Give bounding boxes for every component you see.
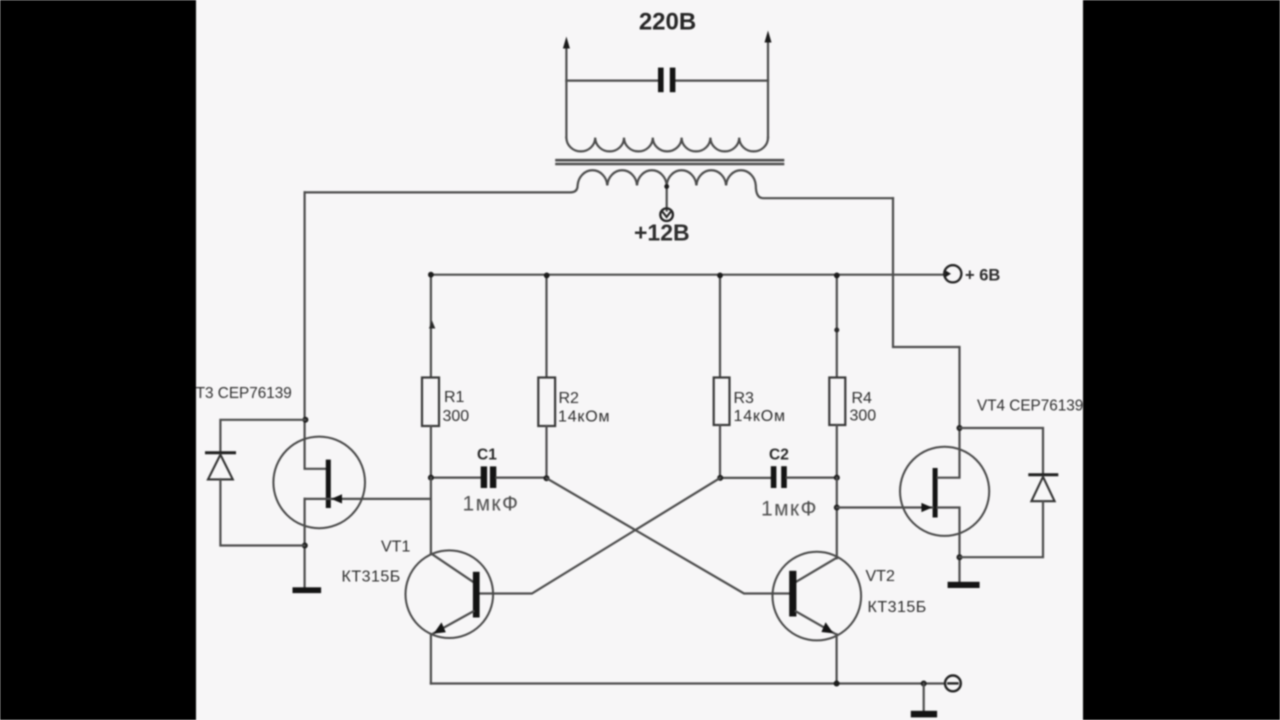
node mark left bbox=[429, 321, 435, 329]
diode VD4 bbox=[1030, 473, 1057, 476]
wire VT4 gate bbox=[837, 506, 933, 508]
resistor R1 bbox=[422, 378, 439, 427]
diode VD3 wire top bbox=[220, 420, 305, 452]
node C2 right bbox=[834, 475, 840, 481]
channel bar VT4 bbox=[933, 468, 938, 518]
transistor VT1 bbox=[406, 550, 494, 638]
svg-text:R1: R1 bbox=[444, 389, 465, 406]
base bar VT1 bbox=[473, 572, 480, 618]
wire bottom bus bbox=[431, 682, 945, 684]
svg-text:VT1: VT1 bbox=[381, 539, 410, 556]
transformer primary winding bbox=[566, 138, 768, 152]
resistor R3 bbox=[714, 378, 730, 426]
wire R3 bottom bbox=[719, 425, 721, 478]
wire capacitor row left bbox=[566, 79, 658, 81]
node bus R3 bbox=[717, 273, 723, 279]
node VT2 emitter bus bbox=[834, 681, 840, 687]
base bar VT2 bbox=[789, 571, 796, 617]
node bus R1 bbox=[428, 272, 434, 278]
svg-text:1мкФ: 1мкФ bbox=[463, 493, 520, 516]
svg-text:+ 6В: + 6В bbox=[965, 267, 1000, 285]
wire R3 top bbox=[719, 275, 721, 378]
wire VT3 source bbox=[304, 499, 306, 587]
wire R4 bottom bbox=[836, 425, 838, 478]
wire C1 left bbox=[431, 477, 481, 479]
svg-text:14кОм: 14кОм bbox=[558, 409, 610, 426]
node VT3 source diode bbox=[302, 543, 308, 549]
wire VT3 gate from node bbox=[305, 498, 431, 500]
svg-text:R2: R2 bbox=[559, 390, 580, 407]
wire top supply bus bbox=[431, 274, 944, 276]
svg-text:КТ315Б: КТ315Б bbox=[868, 599, 927, 616]
pillarbox bar right bbox=[1083, 0, 1280, 720]
svg-text:+12В: +12В bbox=[634, 220, 690, 246]
pillarbox bar left bbox=[0, 0, 196, 720]
node VT4 drain diode bbox=[957, 425, 963, 431]
wire R1 top bbox=[430, 275, 432, 378]
ground bottom bbox=[911, 711, 937, 718]
wire transformer right to VT4 drain bbox=[893, 198, 960, 428]
resistor R4 bbox=[829, 378, 845, 426]
svg-text:14кОм: 14кОм bbox=[734, 408, 786, 425]
node ground tee bbox=[921, 681, 927, 687]
transformer secondary winding bbox=[305, 170, 893, 198]
wire C2 left bbox=[720, 477, 771, 479]
node C1 right bbox=[544, 475, 550, 481]
transformer T1 output right lead bbox=[767, 38, 769, 138]
node C2 left bbox=[717, 475, 723, 481]
diode VD3 wire bottom bbox=[220, 479, 304, 545]
wire VT2 emitter bbox=[796, 611, 836, 634]
mosfet VT3 bbox=[273, 437, 365, 529]
svg-text:VT4 CEP76139: VT4 CEP76139 bbox=[977, 398, 1083, 415]
wire R1 bottom bbox=[430, 426, 432, 478]
diode VD4 wire bottom bbox=[960, 501, 1044, 557]
wire VT4 drain bbox=[938, 428, 960, 478]
diode VD4 wire top bbox=[960, 428, 1044, 473]
svg-text:300: 300 bbox=[850, 408, 877, 425]
channel bar VT3 bbox=[326, 460, 331, 508]
wire R4 top bbox=[836, 275, 838, 378]
terminal minus bbox=[945, 676, 961, 692]
transformer core bbox=[557, 159, 784, 162]
wire cross coupling R2 to VT2 base bbox=[547, 478, 790, 593]
node C1 left bbox=[428, 475, 434, 481]
wire R2 top bbox=[545, 275, 547, 378]
svg-text:КТ315Б: КТ315Б bbox=[342, 569, 401, 586]
node VT3 drain diode bbox=[302, 417, 308, 423]
wire C1 right bbox=[496, 477, 546, 479]
wire VT4 source bbox=[938, 508, 960, 582]
node center tap bbox=[664, 184, 669, 189]
capacitor C2 bbox=[771, 466, 787, 488]
ground VT3 bbox=[293, 587, 322, 593]
resistor R2 bbox=[538, 378, 555, 427]
svg-text:R3: R3 bbox=[734, 390, 755, 407]
ground VT4 bbox=[948, 582, 980, 588]
wire transformer left down to VT3 bbox=[305, 192, 326, 468]
svg-text:220В: 220В bbox=[639, 9, 696, 36]
mosfet VT4 bbox=[900, 447, 989, 536]
transformer T1 output left lead bbox=[565, 44, 567, 138]
arrow VT4 gate bbox=[921, 503, 932, 512]
wire cross coupling R3 to VT1 base bbox=[480, 478, 721, 594]
svg-text:1мкФ: 1мкФ bbox=[761, 498, 818, 521]
capacitor C1 bbox=[481, 466, 497, 488]
wire C2 right bbox=[787, 477, 837, 479]
arrow VT3 gate bbox=[331, 494, 342, 503]
node bus R2 bbox=[544, 273, 550, 279]
wire R2 bottom bbox=[545, 426, 547, 478]
terminal +6V bbox=[944, 265, 961, 282]
terminal +12V bbox=[660, 208, 673, 221]
wire center tap bbox=[666, 186, 668, 211]
wire VT2 collector bbox=[836, 478, 838, 559]
svg-text:300: 300 bbox=[443, 408, 470, 425]
wire capacitor row right bbox=[675, 79, 768, 81]
transistor VT2 bbox=[773, 552, 862, 641]
node VT4 source diode bbox=[957, 554, 963, 560]
svg-text:VT3 CEP76139: VT3 CEP76139 bbox=[186, 385, 292, 402]
wire ground stem bbox=[923, 684, 925, 711]
svg-text:C1: C1 bbox=[477, 447, 497, 464]
wire VT1 emitter bbox=[431, 611, 473, 634]
node mark right bbox=[834, 328, 839, 333]
svg-text:C2: C2 bbox=[769, 447, 789, 464]
node VT4 gate tee bbox=[834, 505, 840, 511]
svg-text:VT2: VT2 bbox=[866, 568, 895, 585]
arrow output right bbox=[765, 31, 772, 43]
diode VD3 bbox=[207, 451, 235, 454]
node bus R4 bbox=[834, 273, 840, 279]
svg-text:R4: R4 bbox=[852, 390, 873, 407]
capacitor output plates bbox=[658, 68, 675, 93]
arrow output left bbox=[563, 37, 570, 49]
wire VT1 collector bbox=[430, 478, 432, 554]
